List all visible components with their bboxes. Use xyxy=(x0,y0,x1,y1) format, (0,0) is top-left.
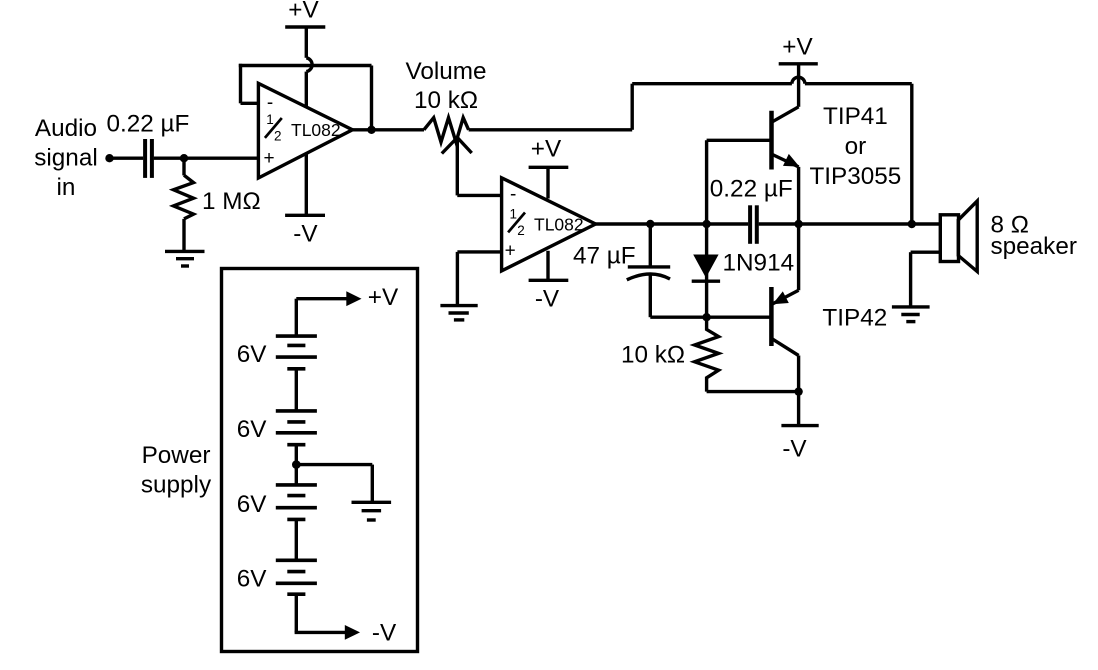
svg-text:1N914: 1N914 xyxy=(723,250,795,277)
transistor Q2 TIP42 base bar xyxy=(769,287,774,346)
op-amp U2 half TL082 xyxy=(502,178,596,271)
power rail bar -V U1 xyxy=(285,214,325,217)
svg-text:0.22 µF: 0.22 µF xyxy=(710,175,793,202)
wire: +V down with hop over feedback xyxy=(305,27,308,58)
ground: supply center tap xyxy=(352,502,392,520)
svg-text:+V: +V xyxy=(782,33,813,60)
resistor R1 1 Mohm xyxy=(174,175,194,219)
wire: B1 to B2 xyxy=(295,369,298,411)
power rail bar +V U1 xyxy=(285,25,325,28)
svg-text:TIP41orTIP3055: TIP41orTIP3055 xyxy=(809,103,901,190)
wire: wiper down to U2 inverting input xyxy=(456,138,459,195)
wire: U2 to -V xyxy=(546,251,549,280)
svg-text:-V: -V xyxy=(293,220,318,247)
wire: U1 inverting input xyxy=(241,102,259,105)
svg-text:Volume: Volume xyxy=(405,58,486,85)
svg-text:+V: +V xyxy=(288,0,319,23)
wire: bias vertical Q1 base to bottom rail xyxy=(705,140,708,317)
wire: B2 to B3 xyxy=(295,445,298,485)
node: bias network junction xyxy=(702,220,710,228)
wire: feedback top horizontal xyxy=(239,64,372,67)
node: audio input terminal xyxy=(105,154,113,162)
Q2 emitter with arrow xyxy=(771,290,798,304)
svg-text:6V: 6V xyxy=(237,491,268,518)
wire: U2 noninverting input xyxy=(457,250,501,253)
diode D1 1N914 xyxy=(693,255,718,278)
wire: Q1 emitter to output rail xyxy=(797,167,800,224)
node: junction C1 R1 xyxy=(180,154,188,162)
wire: riser up xyxy=(631,84,634,130)
node: speaker feedback junction xyxy=(908,220,916,228)
svg-text:+V: +V xyxy=(368,284,399,311)
wire: top horizontal to output node with hop over +V xyxy=(632,82,792,85)
svg-text:1 MΩ: 1 MΩ xyxy=(202,188,261,215)
battery B4 6V xyxy=(276,560,317,594)
wire: node down to R1 xyxy=(182,158,185,175)
svg-text:+: + xyxy=(264,148,275,169)
transistor Q1 TIP41 base bar xyxy=(769,111,774,170)
wire: C3 to speaker rail xyxy=(759,222,939,225)
power rail bar -V U2 xyxy=(529,279,569,282)
wire: C1 to U1 noninverting input xyxy=(154,156,259,159)
wire: U1 to -V xyxy=(305,154,308,216)
svg-text:0.22 µF: 0.22 µF xyxy=(107,111,190,138)
ground: input bias return xyxy=(165,251,205,266)
capacitor C1 0.22 uF xyxy=(143,139,147,178)
wire: Q1 base wire xyxy=(707,139,772,142)
wire: B3 to B4 xyxy=(295,519,298,560)
op-amp U1 half TL082 xyxy=(258,83,352,178)
svg-text:2: 2 xyxy=(517,223,525,238)
wire: speaker return xyxy=(911,250,939,253)
capacitor C2 curved plate xyxy=(627,274,670,280)
svg-text:-V: -V xyxy=(535,285,560,312)
node: C2 junction xyxy=(646,220,654,228)
speaker LS1 box xyxy=(940,215,958,262)
svg-text:+V: +V xyxy=(531,136,562,163)
node: U1 output feedback junction xyxy=(367,126,375,134)
svg-text:TL082: TL082 xyxy=(534,215,584,235)
svg-text:-: - xyxy=(510,184,516,205)
capacitor C2 47 uF top plate xyxy=(628,265,670,268)
svg-text:1: 1 xyxy=(266,112,274,127)
Q2 collector xyxy=(771,338,799,356)
power supply box xyxy=(222,269,418,652)
wire: R1 to ground xyxy=(182,219,185,252)
wire: pot right to riser xyxy=(469,128,633,131)
power rail bar +V Q1 xyxy=(779,62,818,65)
svg-text:8 Ωspeaker: 8 Ωspeaker xyxy=(991,211,1077,260)
wire: output rail down to Q2 emitter xyxy=(797,224,800,290)
wire: arrow to battery B1 xyxy=(295,299,298,336)
wire: C2 to bottom rail xyxy=(649,275,652,318)
svg-text:47 µF: 47 µF xyxy=(573,243,636,270)
wire: node to -V rail xyxy=(797,392,800,426)
svg-text:Audiosignalin: Audiosignalin xyxy=(34,115,97,201)
power rail bar +V U2 xyxy=(529,166,569,169)
wire: U1 output to volume pot xyxy=(353,128,425,131)
wire: U2 output rail to C3 xyxy=(596,222,749,225)
svg-text:2: 2 xyxy=(274,129,282,144)
potentiometer: Volume 10 kohm body xyxy=(424,118,469,142)
svg-text:10 kΩ: 10 kΩ xyxy=(621,342,685,369)
wire: noninverting input to ground xyxy=(456,252,459,306)
wire: bottom rail to Q2 base xyxy=(650,316,771,319)
ground: U2 noninverting input xyxy=(440,306,477,320)
wire: center tap to ground xyxy=(296,463,372,466)
wire: input terminal to C1 xyxy=(110,156,144,159)
svg-text:Powersupply: Powersupply xyxy=(141,442,212,499)
node: center tap xyxy=(292,460,301,469)
potentiometer wiper arrow xyxy=(442,138,458,154)
power rail bar -V Q2 xyxy=(781,424,818,427)
ground: speaker return xyxy=(892,307,930,322)
svg-text:-V: -V xyxy=(782,436,807,463)
Q1 collector xyxy=(771,107,799,123)
Q1 emitter with arrow xyxy=(771,154,799,167)
wire: R2 bottom to Q2 collector node xyxy=(707,390,799,393)
svg-text:-: - xyxy=(267,93,273,114)
svg-text:10 kΩ: 10 kΩ xyxy=(414,87,478,114)
speaker LS1 horn xyxy=(958,201,977,272)
svg-text:-V: -V xyxy=(372,619,397,646)
wire: B4 to -V arrow xyxy=(295,594,298,632)
svg-text:6V: 6V xyxy=(237,566,268,593)
resistor R2 10 kohm xyxy=(695,317,719,391)
capacitor C3 0.22 uF in output rail xyxy=(748,205,752,244)
svg-text:+: + xyxy=(505,241,516,262)
node: Q2 collector junction xyxy=(794,387,802,395)
wire: +V output arrow xyxy=(296,297,347,300)
svg-text:6V: 6V xyxy=(237,341,268,368)
svg-text:1: 1 xyxy=(509,206,517,221)
battery B3 6V xyxy=(276,485,317,520)
battery B1 6V xyxy=(276,336,317,369)
svg-text:TIP42: TIP42 xyxy=(822,305,887,332)
svg-text:TL082: TL082 xyxy=(291,120,341,140)
node: diode R2 junction xyxy=(702,313,710,321)
wire: feedback right vertical to output xyxy=(370,66,373,130)
node: push-pull output junction xyxy=(794,220,802,228)
battery B2 6V xyxy=(276,411,317,445)
wire: rail down to C2 xyxy=(649,224,652,267)
wire: +V to U2 xyxy=(546,167,549,198)
wire: feedback left vertical xyxy=(239,64,242,104)
wire: down to speaker node xyxy=(910,84,913,224)
svg-text:6V: 6V xyxy=(237,416,268,443)
